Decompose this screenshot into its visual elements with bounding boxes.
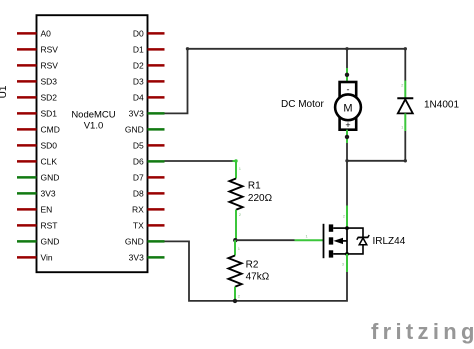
resistor R1 220: [229, 166, 272, 240]
vertical spine: [346, 228, 348, 254]
diode bottom lead: [404, 113, 406, 131]
pin EN: [17, 208, 37, 211]
svg-text:1N4001: 1N4001: [424, 100, 459, 111]
svg-text:D3: D3: [133, 76, 144, 86]
svg-text:R1: R1: [248, 181, 261, 192]
svg-text:A0: A0: [41, 28, 52, 38]
source connector: [333, 253, 347, 255]
node R2 bottom junction: [233, 299, 237, 303]
pin D7: [148, 176, 165, 179]
channel bar middle: [329, 237, 333, 244]
body arrow: [333, 238, 343, 244]
resistor R2 47k: [228, 240, 269, 301]
pin D5: [148, 144, 165, 147]
body diode bar with hooks: [357, 235, 369, 240]
svg-text:D6: D6: [133, 156, 144, 166]
svg-text:RSV: RSV: [41, 44, 59, 54]
svg-text:TX: TX: [133, 220, 144, 230]
svg-text:+: +: [345, 120, 350, 130]
gate lead: [295, 239, 324, 241]
pin RST: [17, 224, 37, 227]
pin CMD: [17, 128, 37, 131]
diode top lead: [404, 81, 406, 99]
body diode triangle: [359, 238, 367, 245]
source lead: [346, 254, 348, 272]
diode triangle: [398, 99, 413, 113]
pin 3V3 right 2: [148, 256, 165, 259]
wire green elbow to R1: [233, 161, 237, 179]
junction motor plus terminal: [345, 73, 349, 77]
svg-text:EN: EN: [41, 204, 53, 214]
svg-text:SD3: SD3: [41, 76, 58, 86]
svg-text:3V3: 3V3: [129, 252, 144, 262]
body diode bottom link: [347, 245, 363, 254]
svg-text:Vin: Vin: [41, 252, 53, 262]
drain connector: [333, 227, 347, 229]
bendpoint diode top corner: [404, 47, 407, 50]
mosfet Q1 IRLZ44: [295, 206, 406, 273]
junction motor minus terminal: [345, 135, 349, 139]
svg-text:DC Motor: DC Motor: [281, 99, 324, 110]
svg-text:3V3: 3V3: [129, 108, 144, 118]
pin Vin: [17, 256, 37, 259]
channel bar bottom: [329, 250, 333, 257]
pin D4: [148, 96, 165, 99]
pin GND left: [17, 176, 37, 179]
svg-text:47kΩ: 47kΩ: [246, 271, 270, 282]
bendpoint diode bottom corner: [404, 159, 407, 162]
pin D3: [148, 80, 165, 83]
bendpoint at 3V3 riser corner: [186, 47, 189, 50]
wire top rail down to diode: [404, 49, 406, 81]
svg-text:D1: D1: [133, 44, 144, 54]
motor circle: [335, 94, 361, 120]
node source: [345, 252, 349, 256]
svg-text:D7: D7: [133, 172, 144, 182]
wire diode anode down: [404, 131, 406, 161]
drain lead: [346, 206, 348, 229]
wire D6 to R1: [165, 160, 233, 162]
svg-text:CLK: CLK: [41, 156, 58, 166]
svg-text:D8: D8: [133, 188, 144, 198]
svg-text:GND: GND: [125, 124, 144, 134]
wire 3V3 to top rail: [165, 49, 406, 114]
pin GND left 2: [17, 240, 37, 243]
svg-text:D0: D0: [133, 28, 144, 38]
svg-text:U1: U1: [0, 85, 9, 98]
pin RSV: [17, 48, 37, 51]
pin SD1: [17, 112, 37, 115]
motor top lead: [346, 68, 348, 82]
NodeMCU U1: [0, 15, 165, 272]
pin RX: [148, 208, 165, 211]
motor body: [340, 82, 357, 130]
R2 top lead: [234, 240, 236, 255]
svg-text:SD2: SD2: [41, 92, 58, 102]
pin TX: [148, 224, 165, 227]
svg-text:-: -: [347, 85, 350, 95]
pin GND right connected: [148, 240, 165, 243]
svg-text:SD0: SD0: [41, 140, 58, 150]
bendpoint motor tee: [345, 47, 348, 50]
svg-text:SD1: SD1: [41, 108, 58, 118]
svg-text:GND: GND: [41, 172, 60, 182]
svg-text:GND: GND: [41, 236, 60, 246]
pin A0: [17, 32, 37, 35]
svg-text:D5: D5: [133, 140, 144, 150]
pin GND right: [148, 128, 165, 131]
wire motor bottom to drain node: [346, 143, 348, 206]
gate bar: [323, 224, 325, 258]
svg-text:R2: R2: [246, 259, 259, 270]
svg-text:NodeMCU: NodeMCU: [71, 110, 115, 121]
svg-text:RX: RX: [132, 204, 144, 214]
bendpoint drain tee: [345, 159, 348, 162]
svg-text:M: M: [343, 102, 352, 114]
NodeMCU body: [37, 15, 148, 272]
svg-text:V1.0: V1.0: [84, 121, 104, 132]
pin D8: [148, 192, 165, 195]
pin RSV: [17, 64, 37, 67]
pin D0: [148, 32, 165, 35]
wire motor top branch: [346, 49, 348, 68]
wire drain node to diode anode: [347, 160, 405, 162]
pin D6 connected: [148, 160, 165, 163]
svg-text:RSV: RSV: [41, 60, 59, 70]
svg-text:RST: RST: [41, 220, 58, 230]
motor M1: [281, 82, 361, 130]
wire gate junction to mosfet: [235, 239, 294, 241]
svg-text:D4: D4: [133, 92, 144, 102]
pin CLK: [17, 160, 37, 163]
diode cathode bar: [397, 97, 413, 99]
pin D2: [148, 64, 165, 67]
node drain: [345, 226, 349, 230]
node gate junction: [233, 238, 237, 242]
svg-text:GND: GND: [125, 236, 144, 246]
body diode top link: [347, 228, 363, 237]
pin D1: [148, 48, 165, 51]
pin 3V3 right connected: [148, 112, 165, 115]
R2 bottom lead: [234, 287, 236, 301]
svg-text:CMD: CMD: [41, 124, 60, 134]
bendpoint D6 corner: [234, 159, 237, 162]
pin SD0: [17, 144, 37, 147]
arrow stem: [343, 240, 347, 242]
motor bottom lead: [346, 130, 348, 143]
channel bar top: [329, 224, 333, 231]
pin SD2: [17, 96, 37, 99]
diode D1 1N4001: [397, 81, 459, 132]
svg-text:fritzing: fritzing: [371, 319, 474, 344]
pin SD3: [17, 80, 37, 83]
R1 zigzag: [229, 179, 242, 210]
svg-text:IRLZ44: IRLZ44: [373, 236, 406, 247]
svg-text:D2: D2: [133, 60, 144, 70]
svg-text:3V3: 3V3: [41, 188, 56, 198]
svg-text:220Ω: 220Ω: [248, 193, 273, 204]
wire GND net: [165, 241, 348, 301]
R2 zigzag: [228, 256, 241, 287]
pin 3V3 left: [17, 192, 37, 195]
R1 bottom lead: [235, 210, 237, 241]
